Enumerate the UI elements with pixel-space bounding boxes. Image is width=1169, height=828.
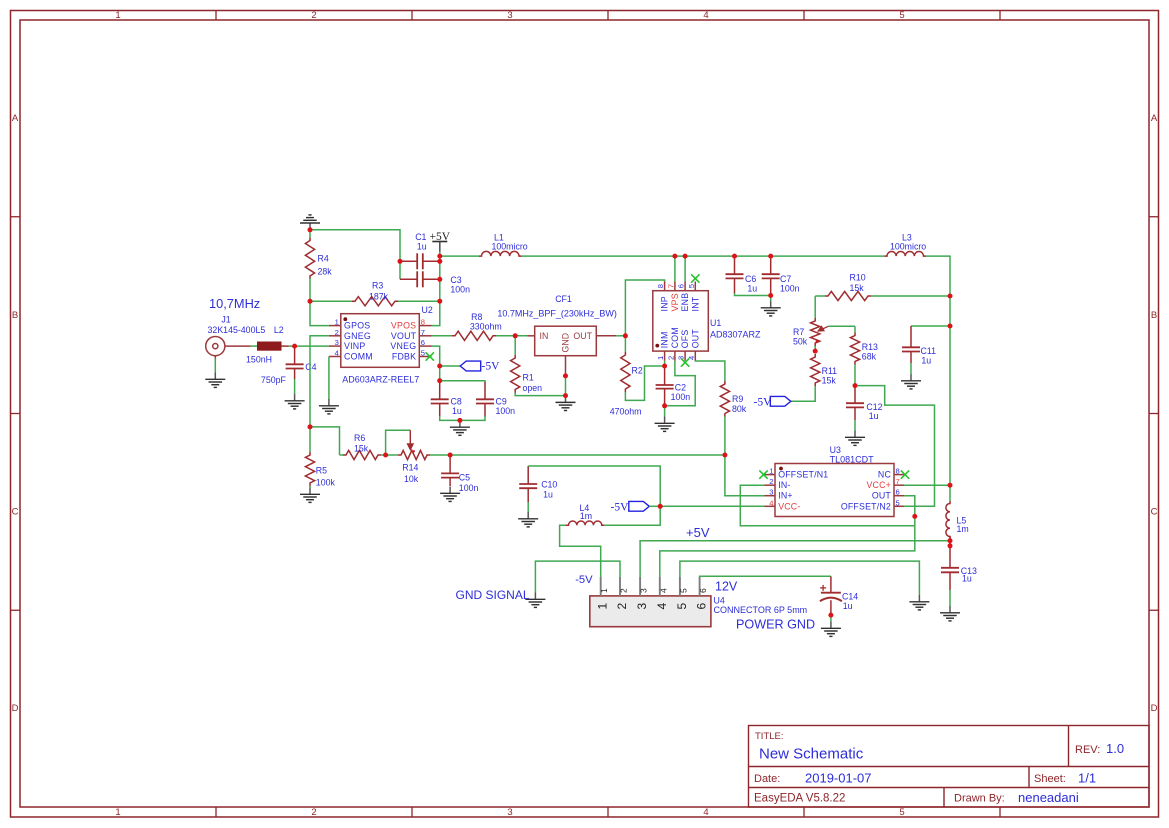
svg-text:100n: 100n bbox=[496, 406, 516, 416]
svg-text:5: 5 bbox=[896, 498, 900, 507]
junction bbox=[563, 373, 568, 378]
svg-text:IN: IN bbox=[540, 331, 549, 341]
wire bbox=[515, 393, 565, 396]
junction bbox=[448, 453, 453, 458]
filter CF1 bbox=[535, 326, 597, 356]
U2 pin numbers bbox=[335, 318, 425, 358]
ground at C13 bbox=[940, 606, 960, 621]
ground at C10 bbox=[518, 512, 538, 527]
svg-text:3: 3 bbox=[335, 338, 339, 347]
wire bbox=[855, 386, 935, 507]
inductor L1 bbox=[479, 251, 522, 256]
svg-text:OUT: OUT bbox=[872, 491, 892, 501]
svg-text:187k: 187k bbox=[369, 292, 389, 302]
wire bbox=[560, 525, 601, 577]
svg-text:10,7MHz: 10,7MHz bbox=[209, 296, 260, 311]
junction bbox=[658, 504, 663, 509]
svg-text:C14: C14 bbox=[842, 592, 858, 602]
svg-text:2: 2 bbox=[666, 356, 675, 360]
svg-text:3: 3 bbox=[635, 603, 649, 610]
svg-text:OFFSET/N1: OFFSET/N1 bbox=[778, 470, 828, 480]
svg-text:R10: R10 bbox=[850, 273, 866, 283]
svg-text:CONNECTOR 6P 5mm: CONNECTOR 6P 5mm bbox=[714, 605, 808, 615]
svg-text:TL081CDT: TL081CDT bbox=[830, 454, 875, 464]
svg-text:5: 5 bbox=[678, 588, 688, 593]
wire bbox=[381, 454, 398, 456]
svg-text:1/1: 1/1 bbox=[1078, 771, 1096, 786]
wire bbox=[735, 293, 771, 296]
resistor R13 bbox=[850, 333, 859, 365]
svg-text:1u: 1u bbox=[921, 355, 931, 365]
resistor R10 bbox=[825, 291, 871, 300]
capacitor C1 bbox=[400, 260, 417, 262]
svg-text:INT: INT bbox=[690, 296, 700, 311]
svg-text:6: 6 bbox=[698, 588, 708, 593]
svg-text:GNEG: GNEG bbox=[344, 331, 371, 341]
resistor R1 bbox=[511, 355, 520, 392]
svg-text:D: D bbox=[12, 703, 19, 714]
wire bbox=[616, 335, 625, 337]
svg-text:1u: 1u bbox=[452, 406, 462, 416]
svg-text:8: 8 bbox=[656, 284, 665, 288]
svg-text:OUT: OUT bbox=[573, 331, 592, 341]
junction bbox=[437, 299, 442, 304]
svg-text:AD8307ARZ: AD8307ARZ bbox=[710, 330, 761, 340]
junction bbox=[457, 418, 462, 423]
ground at C2 bbox=[655, 417, 675, 432]
svg-text:COM: COM bbox=[670, 327, 680, 348]
svg-text:1: 1 bbox=[596, 603, 610, 610]
svg-text:B: B bbox=[12, 310, 18, 321]
potentiometer R14 bbox=[398, 450, 430, 459]
svg-text:ENB: ENB bbox=[680, 293, 690, 312]
svg-text:C4: C4 bbox=[305, 362, 316, 372]
U1 pin stubs bbox=[665, 282, 696, 361]
wire bbox=[814, 346, 816, 351]
svg-text:Drawn By:: Drawn By: bbox=[954, 793, 1005, 805]
svg-text:C7: C7 bbox=[780, 274, 791, 284]
wire bbox=[294, 379, 296, 394]
svg-text:4: 4 bbox=[655, 603, 669, 610]
svg-text:1u: 1u bbox=[962, 574, 972, 584]
svg-text:750pF: 750pF bbox=[261, 375, 287, 385]
wire bbox=[815, 295, 825, 297]
junction bbox=[683, 254, 688, 259]
wire bbox=[251, 345, 258, 347]
svg-text:neneadani: neneadani bbox=[1018, 790, 1079, 805]
svg-text:CF1: CF1 bbox=[555, 294, 572, 304]
wire bbox=[309, 230, 311, 238]
svg-text:-5V: -5V bbox=[482, 361, 501, 373]
wire bbox=[910, 363, 912, 374]
wire bbox=[535, 561, 620, 592]
wire bbox=[791, 386, 815, 401]
junction bbox=[437, 259, 442, 264]
wire bbox=[904, 484, 950, 486]
svg-text:12V: 12V bbox=[715, 579, 738, 593]
svg-text:C5: C5 bbox=[459, 473, 470, 483]
wire bbox=[386, 430, 411, 455]
svg-text:2: 2 bbox=[311, 10, 316, 21]
ground at C7 bbox=[761, 301, 781, 316]
wire bbox=[432, 256, 440, 326]
svg-text:J1: J1 bbox=[221, 315, 230, 325]
svg-text:4: 4 bbox=[703, 807, 708, 818]
ground at R5 bbox=[300, 488, 320, 503]
inductor L5 bbox=[946, 501, 950, 539]
wire bbox=[289, 345, 295, 347]
wire bbox=[724, 417, 726, 456]
wire bbox=[328, 357, 330, 400]
svg-text:C1: C1 bbox=[415, 232, 426, 242]
svg-text:470ohm: 470ohm bbox=[610, 407, 642, 417]
wire bbox=[674, 256, 676, 281]
wire bbox=[440, 416, 485, 420]
svg-text:100n: 100n bbox=[450, 284, 470, 294]
svg-text:5: 5 bbox=[899, 10, 904, 21]
svg-text:R2: R2 bbox=[632, 366, 643, 376]
svg-text:150nH: 150nH bbox=[246, 355, 272, 365]
wire bbox=[527, 502, 529, 512]
svg-text:5: 5 bbox=[675, 603, 689, 610]
capacitor C10 bbox=[527, 466, 529, 484]
svg-text:GPOS: GPOS bbox=[344, 321, 370, 331]
wire bbox=[214, 358, 216, 373]
resistor R11 bbox=[811, 354, 820, 386]
svg-text:4: 4 bbox=[335, 349, 339, 358]
wire bbox=[398, 300, 440, 302]
junction bbox=[398, 259, 403, 264]
junction bbox=[437, 378, 442, 383]
no-connect U1 OFS bbox=[681, 358, 689, 366]
svg-text:28k: 28k bbox=[318, 267, 333, 277]
capacitor C8 bbox=[439, 382, 441, 399]
svg-text:1u: 1u bbox=[843, 601, 853, 611]
junction bbox=[662, 364, 667, 369]
resistor R3 bbox=[352, 297, 398, 306]
svg-text:3: 3 bbox=[507, 10, 512, 21]
svg-text:1u: 1u bbox=[747, 284, 757, 294]
svg-text:1u: 1u bbox=[417, 242, 427, 252]
svg-text:1: 1 bbox=[335, 318, 339, 327]
svg-text:R4: R4 bbox=[318, 254, 329, 264]
svg-text:C10: C10 bbox=[541, 479, 557, 489]
svg-text:VCC-: VCC- bbox=[778, 501, 800, 511]
svg-text:C: C bbox=[1151, 507, 1158, 518]
ground above R4 bbox=[300, 215, 320, 230]
svg-text:L2: L2 bbox=[274, 325, 284, 335]
wire bbox=[664, 361, 666, 366]
junction bbox=[308, 299, 313, 304]
wire bbox=[814, 296, 816, 318]
svg-text:1.0: 1.0 bbox=[1106, 741, 1124, 756]
junction bbox=[672, 254, 677, 259]
power +5V symbol bbox=[432, 242, 447, 252]
potentiometer R7 bbox=[811, 318, 820, 346]
net flag -5V at R11 bbox=[770, 396, 791, 406]
junction bbox=[513, 333, 518, 338]
op-amp U3 TL081CDT bbox=[775, 464, 894, 517]
svg-text:VPOS: VPOS bbox=[391, 321, 416, 331]
svg-text:7: 7 bbox=[421, 328, 425, 337]
svg-text:15k: 15k bbox=[354, 444, 369, 454]
svg-text:1: 1 bbox=[599, 588, 609, 593]
ground at U2 COMM bbox=[319, 399, 339, 414]
svg-text:8: 8 bbox=[421, 318, 425, 327]
svg-text:100k: 100k bbox=[316, 478, 336, 488]
svg-text:100micro: 100micro bbox=[492, 242, 528, 252]
wire bbox=[649, 505, 660, 507]
wire bbox=[665, 361, 696, 406]
wire bbox=[295, 345, 329, 347]
junction bbox=[437, 254, 442, 259]
wire bbox=[310, 336, 329, 427]
svg-text:REV:: REV: bbox=[1075, 744, 1100, 756]
svg-text:VPS: VPS bbox=[670, 293, 680, 311]
U3 pin numbers bbox=[769, 467, 899, 508]
svg-text:A: A bbox=[1151, 113, 1158, 124]
wire bbox=[340, 454, 344, 456]
inductor L2 (ferrite bead) bbox=[258, 342, 282, 350]
svg-text:IN+: IN+ bbox=[778, 491, 793, 501]
svg-text:100n: 100n bbox=[780, 284, 800, 294]
svg-text:R3: R3 bbox=[372, 281, 383, 291]
junction bbox=[912, 514, 917, 519]
resistor R5 bbox=[305, 452, 314, 486]
CF1 pin names bbox=[540, 331, 593, 353]
svg-text:330ohm: 330ohm bbox=[470, 321, 502, 331]
svg-text:R6: R6 bbox=[354, 433, 365, 443]
svg-text:6: 6 bbox=[695, 603, 709, 610]
svg-text:7: 7 bbox=[896, 477, 900, 486]
wire bbox=[565, 376, 567, 396]
wire bbox=[432, 335, 453, 337]
svg-text:R13: R13 bbox=[862, 342, 878, 352]
svg-text:C6: C6 bbox=[745, 274, 756, 284]
junction bbox=[437, 277, 442, 282]
capacitor C5 bbox=[449, 455, 451, 473]
wire bbox=[310, 300, 352, 302]
wire bbox=[440, 365, 461, 367]
svg-text:OFFSET/N2: OFFSET/N2 bbox=[841, 501, 891, 511]
wire bbox=[625, 280, 664, 336]
no-connect U2 FDBK bbox=[426, 352, 434, 360]
wire bbox=[440, 255, 479, 257]
wire bbox=[725, 455, 765, 496]
svg-text:6: 6 bbox=[896, 488, 900, 497]
svg-text:80k: 80k bbox=[732, 404, 747, 414]
svg-text:OFS: OFS bbox=[680, 329, 690, 348]
ground at C4 bbox=[285, 394, 305, 409]
wire bbox=[522, 255, 885, 257]
ground GND SIGNAL bbox=[525, 593, 545, 608]
svg-text:GND SIGNAL: GND SIGNAL bbox=[456, 588, 530, 602]
wire bbox=[430, 454, 450, 456]
capacitor C13 bbox=[949, 546, 951, 568]
svg-text:U2: U2 bbox=[422, 305, 433, 315]
junction bbox=[563, 393, 568, 398]
wire bbox=[310, 427, 340, 455]
svg-text:6: 6 bbox=[677, 284, 686, 288]
wire bbox=[660, 505, 764, 507]
resistor R4 bbox=[305, 238, 314, 280]
frame column numbers bbox=[115, 10, 904, 818]
wire bbox=[640, 541, 950, 577]
svg-text:R14: R14 bbox=[402, 462, 418, 472]
svg-text:50k: 50k bbox=[793, 336, 808, 346]
svg-text:TITLE:: TITLE: bbox=[755, 731, 784, 742]
junction bbox=[437, 364, 442, 369]
svg-text:100micro: 100micro bbox=[890, 242, 926, 252]
U3 pin names bbox=[778, 470, 891, 512]
amplifier U1 AD8307ARZ bbox=[653, 291, 709, 351]
svg-text:C: C bbox=[12, 507, 19, 518]
wire bbox=[740, 485, 915, 526]
title block bbox=[749, 726, 1150, 808]
wire bbox=[700, 575, 831, 578]
svg-text:4: 4 bbox=[769, 498, 773, 507]
wire bbox=[830, 615, 832, 621]
wire bbox=[625, 366, 664, 400]
svg-text:C8: C8 bbox=[451, 396, 462, 406]
junction bbox=[623, 333, 628, 338]
resistor R6 bbox=[343, 450, 381, 459]
svg-text:C3: C3 bbox=[450, 275, 461, 285]
svg-text:-5V: -5V bbox=[611, 501, 630, 513]
svg-text:2: 2 bbox=[619, 588, 629, 593]
U2 pin names bbox=[344, 321, 417, 362]
svg-text:AD603ARZ-REEL7: AD603ARZ-REEL7 bbox=[342, 374, 419, 384]
wire bbox=[828, 325, 855, 327]
U3 pin stubs bbox=[765, 475, 905, 507]
wire bbox=[624, 336, 626, 352]
connector J1 bbox=[206, 337, 251, 361]
resistor R2 bbox=[621, 352, 630, 392]
svg-text:Sheet:: Sheet: bbox=[1034, 773, 1066, 785]
svg-text:R11: R11 bbox=[822, 366, 838, 376]
U4 pin numbers bbox=[596, 588, 709, 610]
svg-text:5: 5 bbox=[687, 284, 696, 288]
svg-text:6: 6 bbox=[421, 338, 425, 347]
wire bbox=[528, 466, 660, 506]
frame row letters bbox=[12, 113, 1158, 714]
svg-text:2: 2 bbox=[335, 328, 339, 337]
U2 pin stubs bbox=[329, 326, 432, 357]
svg-text:EasyEDA V5.8.22: EasyEDA V5.8.22 bbox=[754, 793, 845, 805]
svg-text:68k: 68k bbox=[862, 352, 877, 362]
capacitor C12 bbox=[854, 386, 856, 404]
wire bbox=[949, 590, 951, 606]
wire bbox=[695, 361, 725, 381]
svg-text:1u: 1u bbox=[543, 489, 553, 499]
R7 wiper bbox=[818, 326, 828, 331]
capacitor C14 (polarized) bbox=[830, 576, 832, 592]
resistor R9 bbox=[720, 381, 729, 417]
svg-text:VOUT: VOUT bbox=[391, 331, 417, 341]
svg-text:VCC+: VCC+ bbox=[866, 480, 891, 490]
svg-text:1m: 1m bbox=[957, 524, 969, 534]
wire bbox=[664, 406, 666, 417]
svg-text:2: 2 bbox=[769, 477, 773, 486]
svg-text:7: 7 bbox=[666, 284, 675, 288]
resistor R8 bbox=[452, 331, 496, 340]
net flag -5V at U2 bbox=[460, 361, 481, 371]
svg-text:2019-01-07: 2019-01-07 bbox=[805, 771, 872, 786]
wire bbox=[309, 427, 311, 452]
capacitor C7 bbox=[770, 256, 772, 274]
junction bbox=[292, 344, 297, 349]
ground at U4 pin5 bbox=[909, 595, 929, 610]
svg-text:1: 1 bbox=[769, 467, 773, 476]
svg-text:R1: R1 bbox=[523, 373, 534, 383]
junction bbox=[813, 349, 818, 354]
svg-text:1: 1 bbox=[656, 356, 665, 360]
junction bbox=[308, 424, 313, 429]
ground at C12 bbox=[845, 431, 865, 446]
svg-text:IN-: IN- bbox=[778, 480, 790, 490]
no-connect U3 NC bbox=[901, 470, 909, 478]
svg-text:5: 5 bbox=[899, 807, 904, 818]
svg-text:3: 3 bbox=[639, 588, 649, 593]
wire bbox=[854, 365, 856, 386]
svg-text:5: 5 bbox=[421, 349, 425, 358]
connector U4 bbox=[590, 596, 711, 627]
ground at CF1 bbox=[556, 396, 576, 411]
svg-text:8: 8 bbox=[896, 467, 900, 476]
wire bbox=[684, 256, 686, 281]
wire bbox=[310, 301, 329, 325]
wire bbox=[604, 506, 660, 525]
junction bbox=[308, 227, 313, 232]
svg-text:POWER GND: POWER GND bbox=[736, 618, 815, 632]
op-amp U2 AD603ARZ-REEL7 bbox=[341, 314, 420, 368]
svg-text:C9: C9 bbox=[496, 396, 507, 406]
inductor L3 bbox=[885, 252, 926, 257]
svg-text:D: D bbox=[1151, 703, 1158, 714]
svg-text:100n: 100n bbox=[671, 392, 691, 402]
capacitor C4 bbox=[294, 346, 296, 364]
ground at C11 bbox=[901, 374, 921, 389]
svg-text:1: 1 bbox=[115, 10, 120, 21]
wire bbox=[854, 420, 856, 431]
svg-text:4: 4 bbox=[703, 10, 708, 21]
svg-text:VINP: VINP bbox=[344, 341, 366, 351]
svg-text:15k: 15k bbox=[822, 376, 837, 386]
svg-text:+5V: +5V bbox=[686, 525, 710, 540]
capacitor C11 bbox=[910, 326, 912, 347]
svg-text:1: 1 bbox=[115, 807, 120, 818]
junction bbox=[948, 483, 953, 488]
junction bbox=[948, 538, 953, 543]
svg-text:100n: 100n bbox=[459, 483, 479, 493]
junction bbox=[768, 254, 773, 259]
wire bbox=[871, 295, 950, 297]
junction bbox=[853, 383, 858, 388]
wire bbox=[911, 325, 950, 327]
no-connect U3 OFFSET/N1 bbox=[759, 470, 767, 478]
svg-text:NC: NC bbox=[878, 470, 892, 480]
wire bbox=[770, 296, 772, 302]
svg-text:OUT: OUT bbox=[690, 329, 700, 349]
svg-text:VNEG: VNEG bbox=[390, 341, 416, 351]
capacitor C2 bbox=[664, 366, 666, 385]
svg-text:U1: U1 bbox=[710, 318, 721, 328]
capacitor C6 bbox=[734, 256, 736, 274]
svg-text:C2: C2 bbox=[675, 383, 686, 393]
svg-text:32K145-400L5: 32K145-400L5 bbox=[208, 325, 266, 335]
svg-text:INM: INM bbox=[660, 331, 670, 348]
capacitor C9 bbox=[484, 382, 486, 399]
